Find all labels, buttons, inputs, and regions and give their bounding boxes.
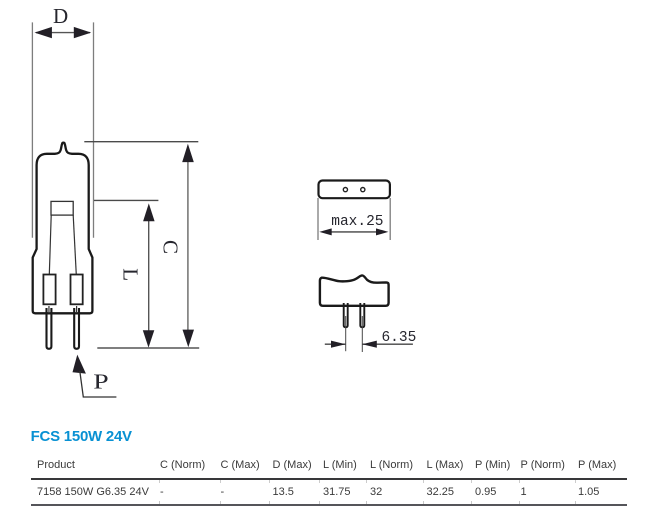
svg-text:C: C bbox=[158, 240, 182, 254]
svg-text:6.35: 6.35 bbox=[381, 330, 416, 346]
svg-text:P: P bbox=[93, 369, 108, 393]
svg-text:max.25: max.25 bbox=[331, 214, 383, 230]
svg-text:D: D bbox=[53, 4, 68, 28]
svg-text:L: L bbox=[119, 268, 143, 281]
